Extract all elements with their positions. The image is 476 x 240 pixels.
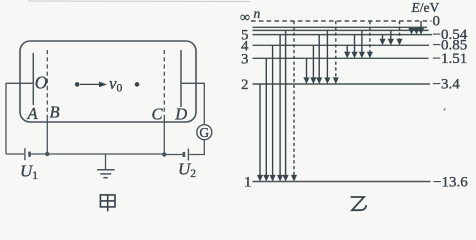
electron beam dot left [75, 82, 80, 87]
svg-text:3: 3 [241, 51, 249, 67]
wire U2 to G [189, 140, 204, 155]
transition arrow n5 to n4 [379, 35, 385, 46]
bottom wire U1 to C [31, 153, 165, 155]
scan speck [443, 108, 445, 110]
svg-text:v0: v0 [109, 74, 123, 95]
svg-text:A: A [27, 104, 39, 123]
svg-text:D: D [174, 105, 187, 124]
wire from plate OA to U1 [6, 83, 33, 154]
transition arrow n5 to n2 [316, 35, 322, 84]
level n2 line [253, 83, 431, 85]
velocity arrow v0 [80, 82, 107, 88]
level n5 line [253, 34, 433, 36]
transition arrow n5 to n3 [351, 35, 357, 59]
transition arrow n7 to n5 [408, 27, 414, 34]
caption yi (乙) [351, 197, 367, 210]
transition arrow n2 to n1 [257, 84, 263, 182]
battery U1 [25, 148, 30, 160]
level n1 line [253, 181, 431, 183]
electrode plate D [180, 50, 182, 107]
dashed transition arrow infinity to n3 [367, 21, 373, 58]
transition arrow infinity to n5 [418, 21, 424, 35]
level n7 line [253, 26, 428, 28]
transition arrow n3 to n1 [263, 58, 269, 181]
bottom wire left of U1 [6, 153, 24, 155]
svg-text:2: 2 [241, 77, 249, 93]
transition arrow n6 to n3 [359, 30, 365, 58]
svg-text:G: G [199, 125, 209, 140]
svg-text:C: C [152, 105, 164, 124]
svg-text:−3.4: −3.4 [433, 76, 461, 92]
wire G to plate D [181, 83, 204, 124]
svg-text:U1: U1 [20, 162, 38, 183]
level infinity dashed line E=0 [251, 20, 432, 22]
svg-text:1: 1 [244, 175, 252, 191]
transition arrow n4 to n3 [344, 45, 350, 58]
node B junction [45, 152, 49, 156]
transition arrow n4 to n1 [270, 45, 276, 181]
svg-text:−13.6: −13.6 [433, 174, 468, 190]
battery U2 [184, 149, 189, 161]
svg-text:O: O [35, 73, 48, 93]
level n6 line [253, 29, 429, 31]
dashed transition arrow infinity to n1 [291, 21, 297, 182]
electron beam dot right [135, 82, 140, 87]
ground [97, 154, 115, 178]
svg-text:∞: ∞ [240, 11, 250, 26]
scan smudge top [28, 0, 250, 3]
transition arrow n4 to n2 [310, 45, 316, 84]
electrode plate OA [32, 53, 34, 105]
wire B lower [46, 116, 48, 154]
dashed grid line B [46, 50, 48, 116]
svg-text:U2: U2 [178, 160, 196, 181]
svg-text:n: n [254, 6, 261, 21]
bottom wire C to U2 [164, 154, 183, 156]
galvanometer G [197, 125, 212, 140]
wire C lower [163, 116, 165, 155]
svg-text:−1.51: −1.51 [433, 51, 468, 67]
node C junction [162, 152, 166, 156]
level n3 line [253, 57, 429, 59]
vacuum tube envelope [20, 41, 196, 122]
transition arrow n5 to n1 [277, 35, 283, 182]
transition arrow n6 to n2 [324, 30, 330, 84]
transition arrow n6 to n5 [413, 28, 419, 35]
caption jia (甲) [100, 195, 115, 211]
dashed transition arrow infinity to n2 [333, 21, 339, 84]
dashed transition arrow infinity to n4 [396, 21, 402, 45]
svg-text:B: B [50, 103, 60, 122]
transition arrow n3 to n2 [303, 58, 309, 84]
transition arrow n6 to n4 [388, 30, 394, 45]
level n4 line [253, 44, 430, 46]
dashed grid line C [163, 50, 165, 116]
transition arrow n6 to n1 [283, 30, 289, 181]
